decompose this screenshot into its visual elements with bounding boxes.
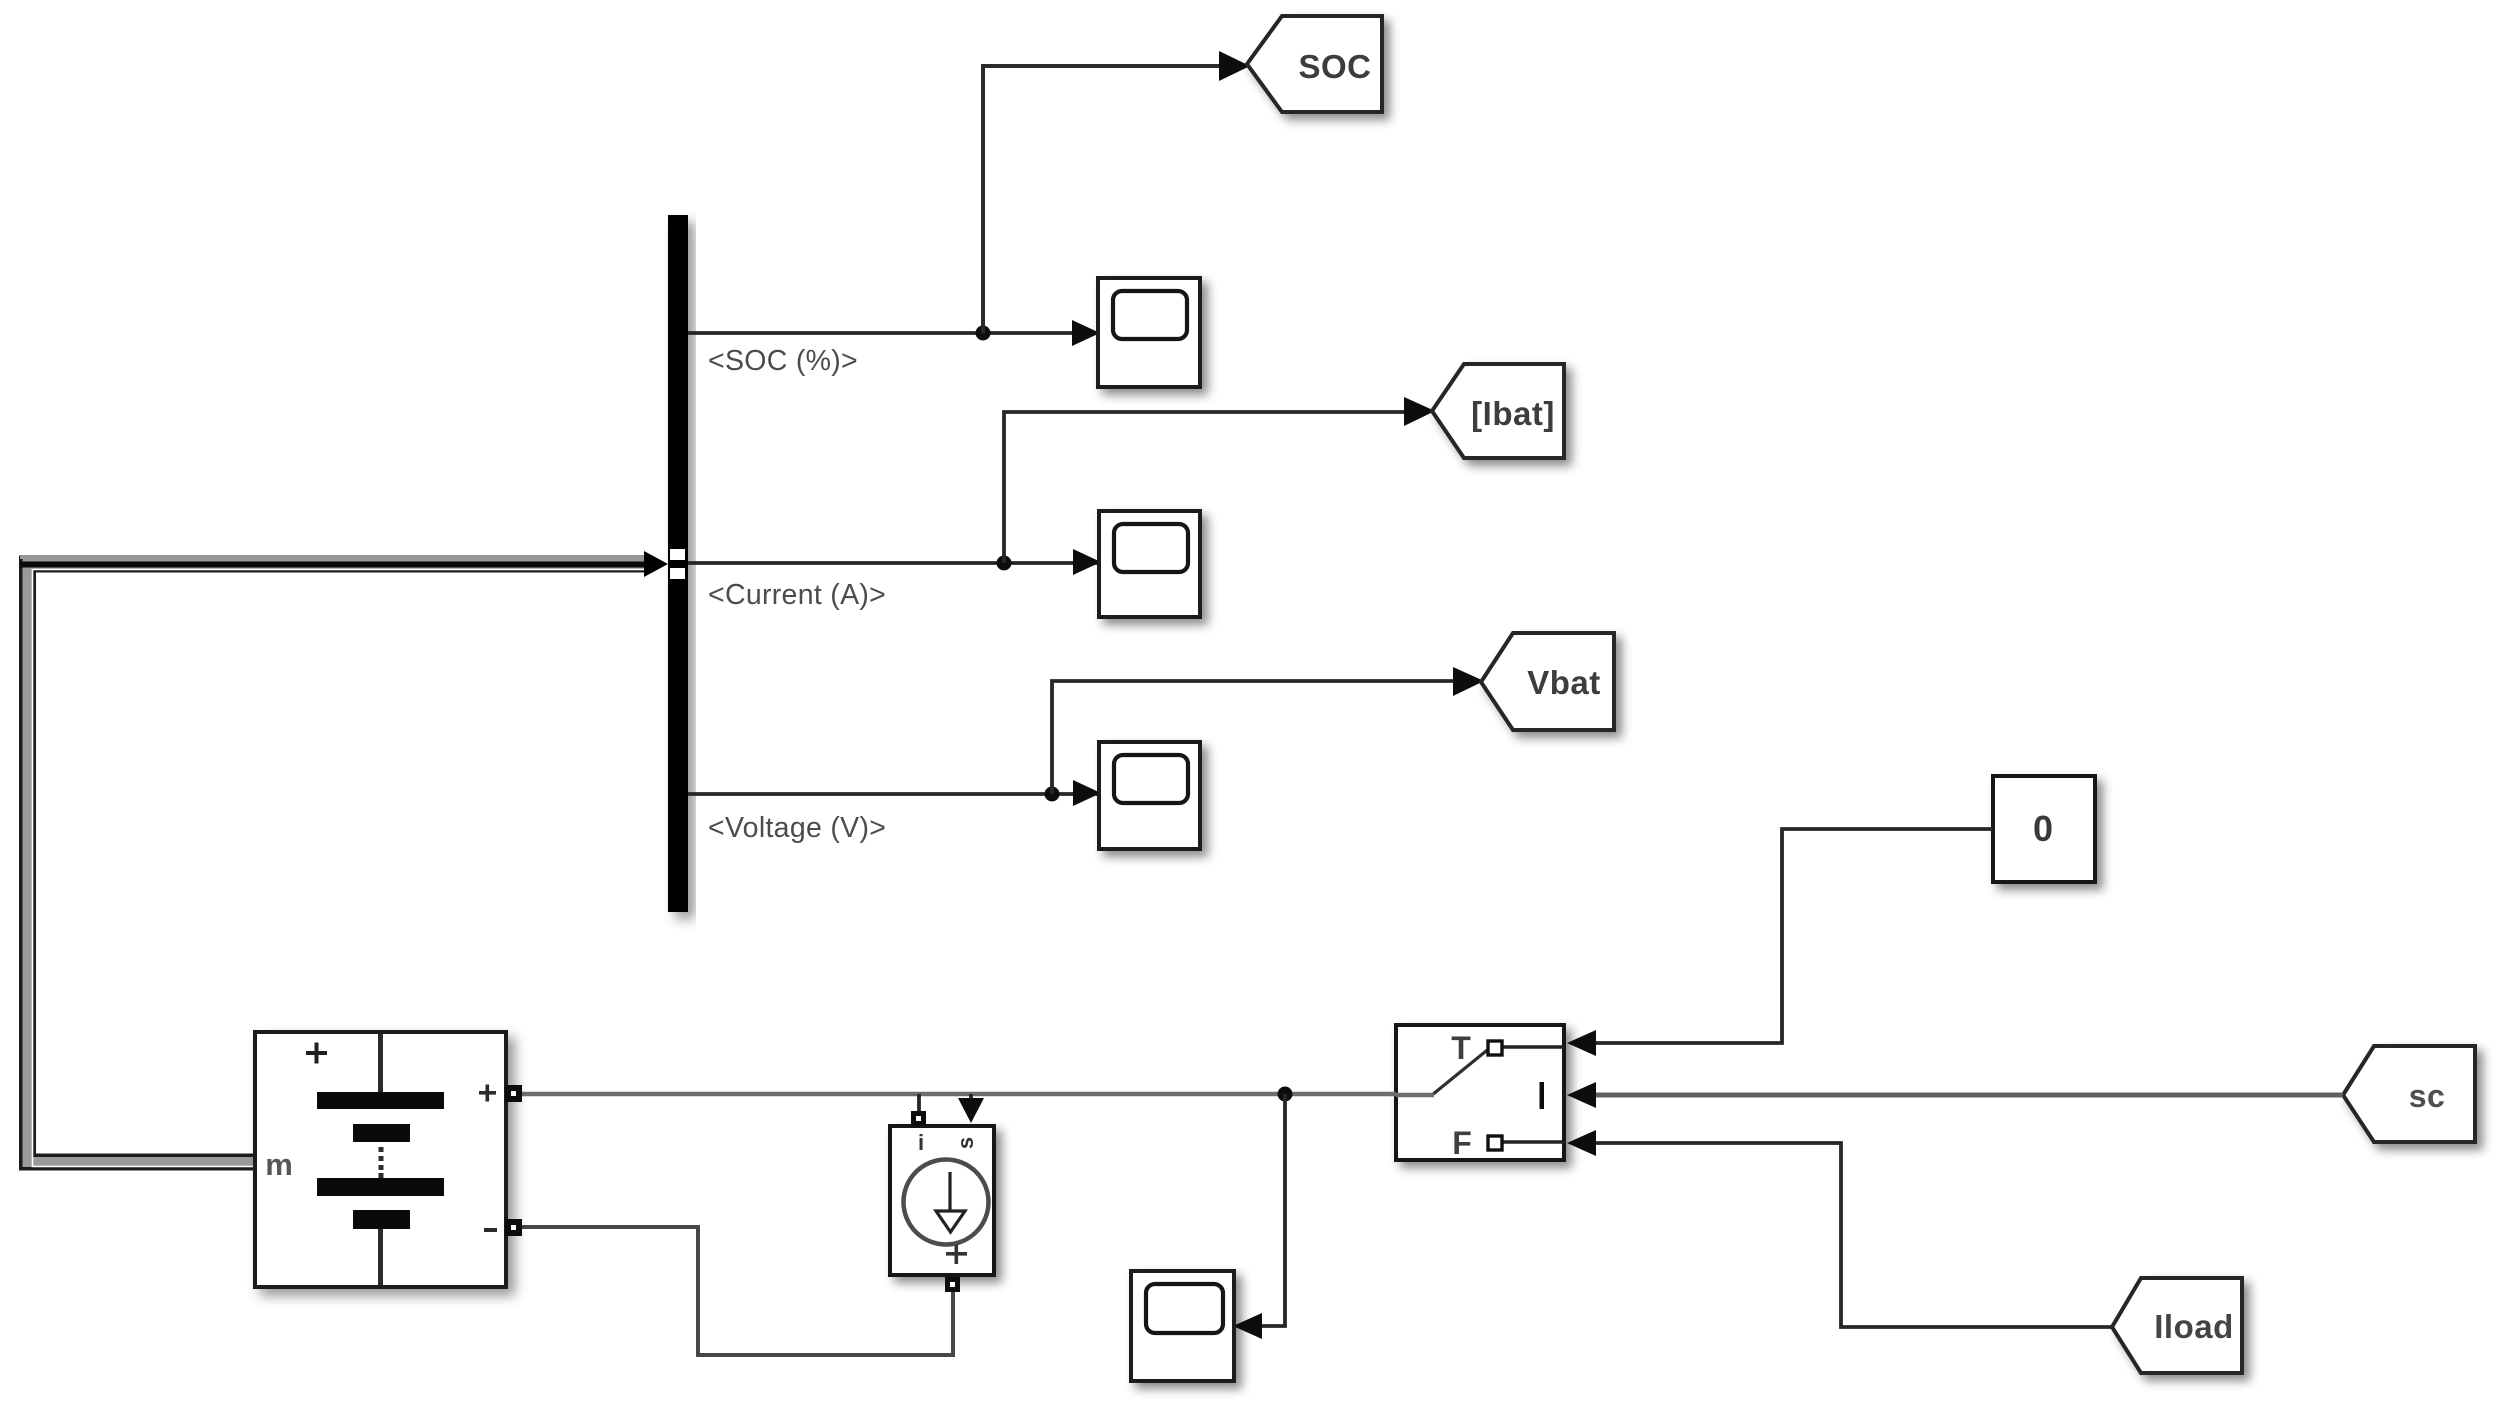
arrowhead: into Vbat tag bbox=[1453, 667, 1484, 696]
svg-text:SOC: SOC bbox=[1298, 48, 1371, 85]
node: junction on Voltage row bbox=[1045, 787, 1060, 802]
svg-text:F: F bbox=[1452, 1125, 1472, 1161]
svg-text:i: i bbox=[918, 1130, 924, 1155]
goto tag SOC bbox=[1247, 16, 1382, 112]
goto tag [Ibat] bbox=[1432, 364, 1564, 458]
wire: Voltage (V) row from bus selector to Scope3 bbox=[688, 792, 1097, 796]
wire: junction down to Scope4 bbox=[1262, 1094, 1285, 1326]
svg-text:<SOC (%)>: <SOC (%)> bbox=[708, 345, 858, 377]
battery top electrode line bbox=[378, 1034, 383, 1092]
svg-text:Vbat: Vbat bbox=[1527, 664, 1601, 701]
battery - port bbox=[505, 1219, 522, 1236]
wire: measurement bus from battery m to Bus Selector (triple line U path) bbox=[28, 564, 647, 1167]
node: junction on + rail bbox=[1278, 1087, 1293, 1102]
wire: battery - to current source bottom bbox=[520, 1227, 953, 1355]
svg-text:m: m bbox=[265, 1147, 293, 1182]
controlled current source block bbox=[890, 1126, 994, 1275]
arrowhead: bus into Bus Selector input bbox=[644, 551, 668, 577]
arrowhead: into switch T input bbox=[1567, 1030, 1596, 1056]
battery block bbox=[255, 1032, 506, 1287]
from tag sc bbox=[2343, 1046, 2475, 1142]
wire: sc to switch control input (gray) bbox=[1596, 1093, 2343, 1098]
battery + label (right) bbox=[479, 1085, 496, 1102]
wire: current source i stub bbox=[917, 1094, 921, 1112]
svg-text:Iload: Iload bbox=[2154, 1308, 2234, 1345]
bus selector input port icon bbox=[670, 549, 685, 560]
arrowhead: into Scope2 bbox=[1073, 549, 1101, 575]
wire: constant 0 to switch T input bbox=[1596, 829, 1993, 1043]
arrowhead: into Scope1 bbox=[1072, 320, 1100, 346]
scope Scope2 bbox=[1099, 511, 1200, 617]
battery plate 4 (short) bbox=[353, 1210, 410, 1229]
wire: battery + rail to switch output (gray) bbox=[520, 1092, 1396, 1097]
bus selector (vertical black bar) bbox=[668, 215, 688, 912]
battery dotted separator bbox=[379, 1147, 384, 1178]
svg-text:[Ibat]: [Ibat] bbox=[1471, 395, 1555, 432]
arrowhead: into Scope3 bbox=[1073, 780, 1101, 806]
switch T contact square bbox=[1488, 1041, 1502, 1055]
svg-text:<Current (A)>: <Current (A)> bbox=[708, 579, 886, 611]
scope Scope4 (mirrored) bbox=[1131, 1271, 1234, 1381]
wire: control into current source s port bbox=[969, 1094, 973, 1100]
scope Scope3 bbox=[1099, 742, 1200, 849]
wire: T contact to right edge bbox=[1500, 1045, 1564, 1048]
switch block bbox=[1396, 1025, 1564, 1160]
wire: SOC (%) row from bus selector to Scope1 bbox=[688, 331, 1096, 335]
arrowhead: into Scope4 (right side) bbox=[1233, 1313, 1262, 1339]
current source arrow triangle bbox=[936, 1211, 965, 1232]
node: junction on SOC row bbox=[976, 326, 991, 341]
battery + label (top-left) bbox=[306, 1043, 327, 1064]
arrowhead: into switch F input bbox=[1567, 1130, 1596, 1156]
svg-text:<Voltage (V)>: <Voltage (V)> bbox=[708, 812, 886, 844]
battery plate 2 (short) bbox=[353, 1124, 410, 1142]
svg-text:sc: sc bbox=[2409, 1078, 2446, 1114]
battery - label (right) bbox=[484, 1228, 497, 1232]
wire: junction up to SOC goto tag bbox=[983, 66, 1243, 333]
switch F contact square bbox=[1488, 1136, 1502, 1150]
wire: output stub inside switch bbox=[1396, 1093, 1434, 1098]
arrowhead: into Ibat tag bbox=[1404, 397, 1435, 426]
arrowhead: into switch control input bbox=[1567, 1082, 1596, 1108]
wire: Iload to switch F input bbox=[1596, 1143, 2112, 1327]
wire: Current (A) row from bus selector to Scope2 bbox=[688, 561, 1097, 565]
current source arrow shaft bbox=[948, 1172, 951, 1211]
svg-text:s: s bbox=[953, 1137, 978, 1149]
goto tag Vbat bbox=[1481, 633, 1614, 730]
arrowhead: into SOC tag bbox=[1219, 51, 1250, 81]
battery plate 3 (long) bbox=[317, 1178, 444, 1196]
arrowhead: into current source s port (down) bbox=[958, 1098, 984, 1123]
current source top-left port bbox=[911, 1111, 926, 1126]
current source circle bbox=[904, 1160, 989, 1245]
node: junction on Current row bbox=[997, 556, 1012, 571]
constant block 0 bbox=[1993, 776, 2095, 882]
switch lever bbox=[1432, 1047, 1491, 1095]
battery bottom electrode line bbox=[378, 1229, 383, 1285]
wire: junction up to Ibat goto tag bbox=[1004, 412, 1428, 563]
from tag Iload bbox=[2112, 1278, 2242, 1373]
wire: F contact to right edge bbox=[1500, 1140, 1564, 1143]
switch threshold bar bbox=[1540, 1082, 1545, 1109]
svg-text:T: T bbox=[1451, 1030, 1471, 1066]
current source + sign bbox=[946, 1252, 967, 1256]
scope Scope1 bbox=[1098, 278, 1200, 387]
battery plate 1 (long) bbox=[317, 1092, 444, 1109]
battery + port bbox=[505, 1085, 522, 1102]
svg-text:0: 0 bbox=[2033, 808, 2053, 849]
wire: junction up to Vbat goto tag bbox=[1052, 681, 1477, 794]
wire: bus top run shading overlay bbox=[20, 555, 644, 559]
current source bottom port bbox=[945, 1277, 960, 1292]
